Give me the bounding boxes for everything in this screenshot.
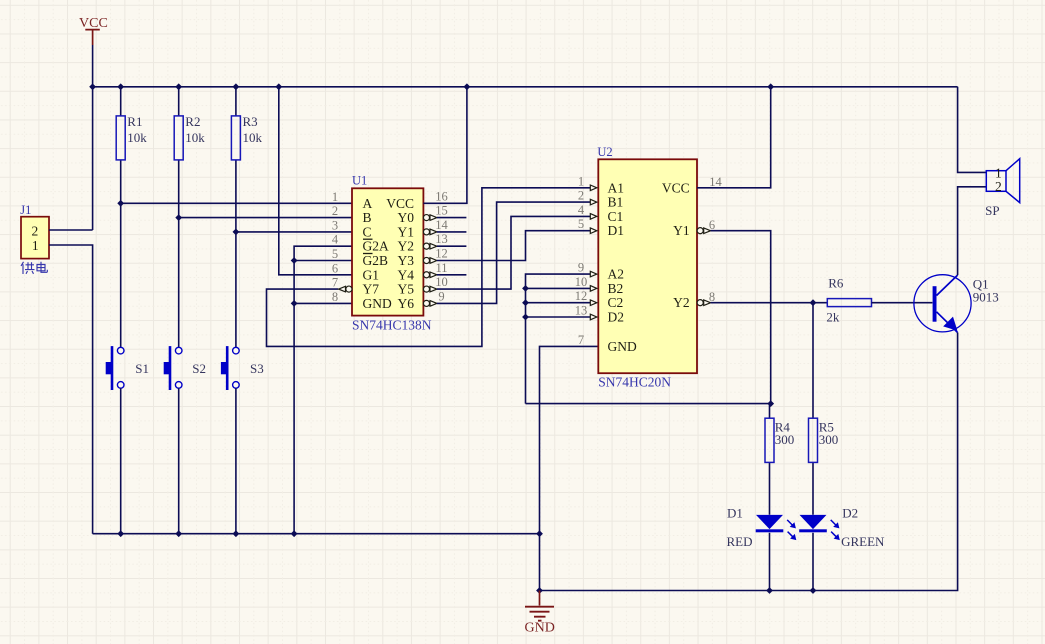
svg-text:Y1: Y1 — [398, 224, 415, 239]
node junction R3/C — [233, 229, 240, 236]
node junction D2 — [522, 314, 529, 321]
wire Q1 collector to speaker pin2 — [958, 187, 987, 275]
node junction B2 — [522, 285, 529, 292]
svg-text:15: 15 — [435, 204, 448, 218]
svg-text:U1: U1 — [352, 174, 367, 188]
node junction Y1/R4/feedback — [767, 400, 774, 407]
svg-text:11: 11 — [435, 261, 447, 275]
svg-text:SP: SP — [985, 203, 999, 218]
svg-text:S3: S3 — [250, 361, 264, 376]
svg-text:R1: R1 — [127, 114, 142, 129]
svg-text:1: 1 — [332, 190, 338, 204]
svg-text:G2B: G2B — [363, 253, 389, 268]
resistor R4 — [765, 404, 794, 515]
svg-text:Y7: Y7 — [363, 282, 380, 297]
LED D1 RED — [727, 506, 797, 591]
svg-text:J1: J1 — [20, 203, 31, 217]
wire row B from R2 to U1 — [179, 217, 352, 219]
wire Y1 down to feedback bus — [711, 231, 771, 404]
svg-text:B: B — [363, 210, 372, 225]
svg-text:8: 8 — [332, 290, 338, 304]
svg-text:Y6: Y6 — [398, 296, 415, 311]
svg-text:S1: S1 — [135, 361, 149, 376]
resistor R5 — [809, 303, 839, 515]
svg-text:Y5: Y5 — [398, 282, 415, 297]
svg-text:300: 300 — [819, 432, 839, 447]
svg-text:9: 9 — [578, 261, 584, 275]
resistor R1 — [116, 87, 147, 348]
wire feedback bus to R4/Y1 — [526, 403, 771, 405]
svg-text:Y2: Y2 — [398, 239, 415, 254]
svg-text:2: 2 — [995, 179, 1002, 194]
svg-text:10k: 10k — [185, 130, 205, 145]
svg-text:1: 1 — [578, 174, 584, 188]
svg-text:2: 2 — [578, 189, 584, 203]
transistor Q1 9013 — [914, 275, 999, 333]
svg-text:5: 5 — [578, 217, 584, 231]
svg-text:D1: D1 — [727, 506, 743, 521]
svg-text:G1: G1 — [363, 267, 380, 282]
svg-text:VCC: VCC — [386, 196, 414, 211]
svg-text:D1: D1 — [608, 223, 625, 238]
node junction S2/ground bus — [175, 530, 182, 537]
wire R6 to Q1 base — [872, 302, 933, 304]
svg-text:C: C — [363, 224, 372, 239]
svg-text:16: 16 — [435, 189, 448, 203]
svg-text:10k: 10k — [243, 130, 263, 145]
svg-text:14: 14 — [435, 218, 448, 232]
node junction bus/R1 — [117, 83, 124, 90]
svg-text:7: 7 — [578, 333, 584, 347]
svg-text:4: 4 — [332, 233, 339, 247]
node junction R5 tap — [810, 299, 817, 306]
svg-text:300: 300 — [775, 432, 795, 447]
node junction switch bus/GND column — [536, 530, 543, 537]
svg-text:VCC: VCC — [662, 180, 690, 195]
ground symbol GND — [525, 591, 555, 636]
wire Y3 to U2 D1 — [437, 231, 590, 261]
svg-text:9013: 9013 — [973, 290, 999, 305]
svg-text:12: 12 — [575, 289, 588, 303]
wire Q1 emitter to ground bus — [540, 333, 958, 591]
label 供电 (J1 comment, drawn strokes) — [21, 262, 47, 274]
wire U2 pin14 VCC riser — [697, 87, 771, 188]
svg-text:1: 1 — [32, 238, 39, 253]
svg-text:Y4: Y4 — [398, 267, 415, 282]
wire Y6 to U2 B1 — [437, 202, 590, 303]
node junction S1/ground bus — [117, 530, 124, 537]
node junction bus/R3 — [233, 83, 240, 90]
svg-text:2k: 2k — [826, 310, 840, 325]
svg-text:Y1: Y1 — [673, 223, 690, 238]
wire bottom switch ground bus — [93, 533, 540, 535]
svg-text:R3: R3 — [243, 114, 258, 129]
node junction R1/A — [117, 200, 124, 207]
svg-text:13: 13 — [435, 232, 448, 246]
svg-text:GND: GND — [363, 296, 392, 311]
svg-text:6: 6 — [332, 261, 338, 275]
node junction C2 — [522, 299, 529, 306]
resistor R6 — [826, 276, 871, 325]
svg-text:G2A: G2A — [363, 239, 389, 254]
svg-text:A2: A2 — [608, 267, 625, 282]
svg-text:2: 2 — [332, 204, 338, 218]
IC U1 SN74HC138N — [332, 174, 467, 333]
svg-text:D2: D2 — [608, 310, 625, 325]
svg-text:10: 10 — [435, 275, 448, 289]
node junction S3/ground bus — [233, 530, 240, 537]
IC U2 SN74HC20N — [575, 145, 723, 389]
svg-text:R6: R6 — [828, 276, 844, 291]
wire Y2 to R6 and R5 tap — [711, 302, 828, 304]
svg-text:GREEN: GREEN — [841, 534, 885, 549]
wire top VCC bus — [93, 86, 958, 88]
node junction bus/G1 riser — [275, 83, 282, 90]
wire U2 A2 feedback chain — [526, 274, 591, 404]
svg-text:5: 5 — [332, 247, 338, 261]
node junction D2 column/ground — [810, 587, 817, 594]
svg-text:D2: D2 — [842, 506, 858, 521]
svg-text:10: 10 — [575, 275, 588, 289]
svg-text:B2: B2 — [608, 281, 624, 296]
node junction G2B — [291, 257, 298, 264]
wire VCC vertical down to bus and J1 pin 2 — [92, 45, 94, 230]
wire row C from R3 to U1 — [236, 231, 352, 233]
LED D2 GREEN — [799, 506, 885, 591]
wire Y7 to U2 A1 link — [267, 188, 591, 347]
svg-text:C2: C2 — [608, 295, 624, 310]
switch S3 — [221, 346, 264, 534]
svg-text:4: 4 — [578, 203, 585, 217]
svg-text:13: 13 — [575, 304, 588, 318]
node junction VCC/J1 — [89, 83, 96, 90]
power symbol VCC — [79, 16, 108, 45]
svg-text:7: 7 — [332, 276, 338, 290]
wire VCC bus corner to speaker pin1 — [958, 87, 987, 173]
svg-text:9: 9 — [438, 289, 444, 303]
node junction bus/U1 VCC riser — [464, 83, 471, 90]
wire Y5 to U2 C1 — [437, 216, 590, 289]
wire J1 pin1 to ground column — [49, 245, 93, 534]
svg-text:10k: 10k — [127, 130, 147, 145]
node junction bus/U2 VCC riser — [767, 83, 774, 90]
switch S2 — [164, 346, 206, 534]
wire G1 riser from VCC bus to U1 pin6 — [279, 87, 352, 275]
svg-text:GND: GND — [525, 621, 555, 636]
node junction D1 column/ground — [766, 587, 773, 594]
svg-text:C1: C1 — [608, 209, 624, 224]
svg-text:Y2: Y2 — [673, 295, 690, 310]
resistor R2 — [174, 87, 205, 348]
svg-text:S2: S2 — [192, 361, 206, 376]
node junction chain/ground bus — [291, 530, 298, 537]
node junction GND symbol — [536, 587, 543, 594]
svg-text:3: 3 — [332, 218, 338, 232]
svg-text:Y3: Y3 — [398, 253, 415, 268]
svg-text:U2: U2 — [597, 145, 612, 159]
svg-text:B1: B1 — [608, 195, 624, 210]
svg-text:A: A — [363, 196, 373, 211]
node junction bus/R2 — [175, 83, 182, 90]
switch S1 — [106, 346, 149, 534]
svg-text:12: 12 — [435, 247, 448, 261]
svg-text:SN74HC138N: SN74HC138N — [352, 318, 432, 333]
connector J1 — [20, 203, 49, 259]
wire U1 pin16 VCC riser — [423, 87, 467, 204]
speaker SP — [985, 159, 1020, 218]
svg-text:SN74HC20N: SN74HC20N — [598, 375, 671, 390]
wire J1 pin2 to VCC column — [49, 229, 93, 231]
svg-text:RED: RED — [727, 534, 753, 549]
node junction R2/B — [175, 214, 182, 221]
svg-text:2: 2 — [32, 224, 39, 239]
node junction U1 GND — [291, 300, 298, 307]
svg-text:GND: GND — [608, 339, 637, 354]
svg-text:Y0: Y0 — [398, 210, 415, 225]
resistor R3 — [231, 87, 262, 348]
wire row A from R1 to U1 — [121, 202, 352, 204]
svg-text:A1: A1 — [608, 180, 625, 195]
wire U2 GND pin to ground — [540, 346, 599, 590]
svg-text:R2: R2 — [185, 114, 200, 129]
wire G2A G2B GND chain of U1 to ground — [294, 246, 352, 534]
svg-text:14: 14 — [709, 175, 722, 189]
